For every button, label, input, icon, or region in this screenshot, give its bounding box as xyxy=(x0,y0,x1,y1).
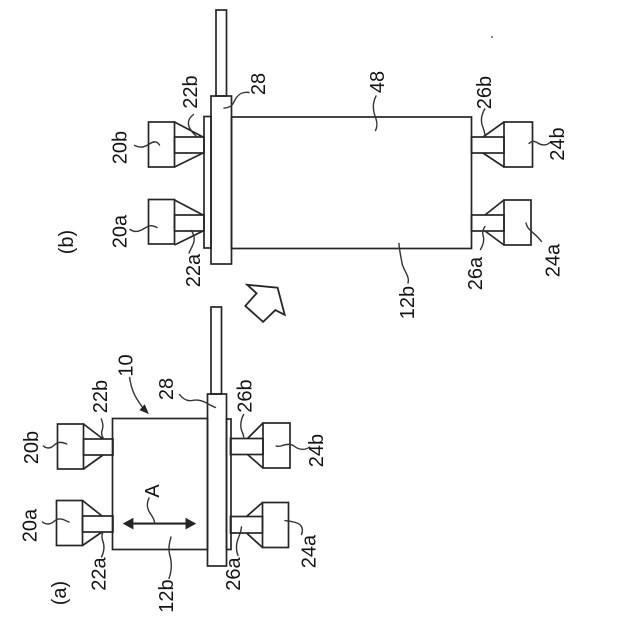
solder slant upper, lead 26b xyxy=(483,122,504,137)
leader 20b fig a xyxy=(43,442,67,448)
leader 26b fig b xyxy=(481,109,485,137)
solder slant lower, lead 22a xyxy=(175,231,204,245)
leader 24a fig a xyxy=(285,521,302,535)
leader 26a fig a xyxy=(237,527,242,556)
arrowhead of leader 10, fig a xyxy=(140,405,148,413)
svg-text:22a: 22a xyxy=(183,253,205,287)
terminal block 24b, fig a xyxy=(263,423,290,468)
solder slant upper, lead 22a fig a xyxy=(83,501,103,517)
leader 26a fig b xyxy=(481,227,486,250)
svg-text:12b: 12b xyxy=(397,286,419,319)
svg-text:A: A xyxy=(142,484,164,498)
svg-text:12b: 12b xyxy=(156,579,178,612)
leader 24b fig b xyxy=(529,141,550,145)
svg-text:20b: 20b xyxy=(21,431,43,464)
solder slant lower, lead 26b fig a xyxy=(248,455,264,469)
leader 22b fig a xyxy=(101,419,104,439)
solder slant upper, lead 22a xyxy=(175,200,204,215)
leader 22a fig b xyxy=(189,231,194,254)
lead 26a, fig b xyxy=(472,215,505,231)
speck artifact top right xyxy=(491,36,493,38)
lead 26b, fig a xyxy=(231,439,264,455)
solder slant lower, lead 26a fig a xyxy=(247,533,263,548)
svg-text:26a: 26a xyxy=(465,256,487,290)
svg-text:22b: 22b xyxy=(180,75,202,108)
svg-text:48: 48 xyxy=(367,71,389,93)
leader 22a fig a xyxy=(102,532,104,557)
svg-text:10: 10 xyxy=(116,354,138,376)
plate 28, fig a xyxy=(208,394,227,566)
lead 26b, fig b xyxy=(472,137,505,153)
leader 20a fig a xyxy=(43,519,70,524)
leader 22b fig b xyxy=(188,115,196,137)
lead 22b, fig a xyxy=(84,439,114,455)
terminal block 24a, fig a xyxy=(263,503,289,548)
leader 26b fig a xyxy=(241,415,244,438)
svg-text:28: 28 xyxy=(156,378,178,400)
lead 22a, fig a xyxy=(83,516,114,532)
terminal block 20a, fig a xyxy=(57,501,83,546)
leader 28 fig a xyxy=(180,395,216,408)
solder slant lower, lead 26a xyxy=(485,231,504,245)
block arrow (a)->(b) xyxy=(245,285,284,322)
solder slant lower, lead 22a fig a xyxy=(83,532,103,546)
svg-text:24b: 24b xyxy=(547,127,569,160)
plate 28, fig b xyxy=(211,96,232,264)
solder slant upper, lead 26a fig a xyxy=(247,503,263,517)
leader 12b fig a xyxy=(169,537,171,579)
svg-text:20b: 20b xyxy=(110,131,132,164)
lead 22a, fig b xyxy=(175,215,205,231)
dimension arrow A, fig a xyxy=(123,518,197,530)
solder slant lower, lead 26b xyxy=(483,153,504,167)
solder slant upper, lead 26b fig a xyxy=(248,423,264,439)
rod (shaft) of clamp 28, fig a xyxy=(211,307,222,394)
terminal block 24b, fig b xyxy=(504,122,533,167)
solder slant upper, lead 22b fig a xyxy=(84,424,104,439)
leader 48 fig b xyxy=(373,96,377,131)
leader 10 arrow, fig a xyxy=(130,378,146,411)
leader A fig a xyxy=(147,498,154,522)
solder slant lower, lead 22b xyxy=(175,153,204,167)
terminal block 20a, fig b xyxy=(149,200,175,245)
svg-text:20a: 20a xyxy=(20,508,42,542)
svg-text:20a: 20a xyxy=(110,214,132,248)
lead 26a, fig a xyxy=(231,517,263,534)
svg-text:24a: 24a xyxy=(543,243,565,277)
svg-text:22a: 22a xyxy=(89,556,111,590)
solder slant upper, lead 26a xyxy=(485,200,504,215)
body 12b, fig a xyxy=(113,419,208,550)
svg-text:28: 28 xyxy=(248,73,270,95)
svg-text:(a): (a) xyxy=(49,581,71,605)
leader 12b fig b xyxy=(399,244,408,284)
terminal block 24a, fig b xyxy=(504,200,531,245)
body 48 / 12b, fig b xyxy=(232,117,472,249)
solder slant lower, lead 22b fig a xyxy=(84,455,104,469)
leader 28 fig b xyxy=(224,92,249,108)
sub-plate (seal strip) right of plate 28, fig a xyxy=(227,419,232,550)
leader 20a fig b xyxy=(130,226,157,232)
rod (shaft) of clamp 28, fig b xyxy=(216,10,227,96)
lead 22b, fig b xyxy=(175,137,205,153)
svg-text:24a: 24a xyxy=(299,534,321,568)
leader 24a fig b xyxy=(526,223,542,242)
terminal block 20b, fig a xyxy=(58,424,84,469)
solder slant upper, lead 22b xyxy=(175,122,204,137)
svg-text:(b): (b) xyxy=(56,230,78,254)
leader 20b fig b xyxy=(135,142,160,147)
svg-text:26a: 26a xyxy=(223,556,245,590)
sub-plate (seal strip) left of plate 28, fig b xyxy=(204,117,211,249)
svg-text:26b: 26b xyxy=(235,379,257,412)
svg-text:26b: 26b xyxy=(474,76,496,109)
svg-text:24b: 24b xyxy=(306,434,328,467)
svg-text:22b: 22b xyxy=(90,380,112,413)
leader 24b fig a xyxy=(276,444,310,449)
terminal block 20b, fig b xyxy=(149,122,175,167)
